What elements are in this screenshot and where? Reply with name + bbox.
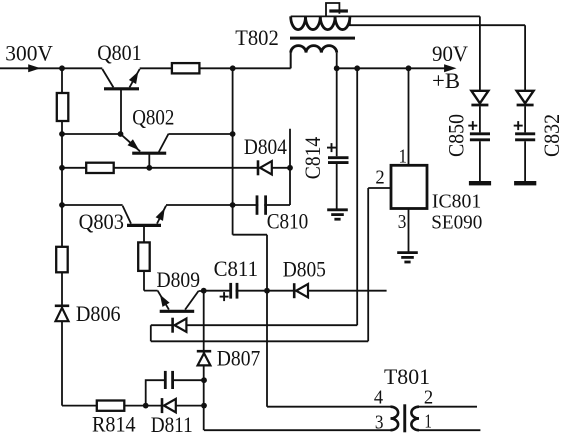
svg-text:+B: +B [432,68,460,93]
svg-text:C811: C811 [214,256,258,281]
svg-text:D809: D809 [157,267,201,292]
svg-text:R814: R814 [92,412,136,436]
svg-text:4: 4 [374,387,383,409]
svg-text:D807: D807 [217,346,260,371]
svg-text:Q801: Q801 [97,40,142,65]
svg-text:C832: C832 [539,114,564,157]
svg-text:T801: T801 [384,364,430,389]
svg-text:3: 3 [398,211,407,233]
svg-text:Q803: Q803 [79,209,124,234]
svg-text:2: 2 [424,387,433,409]
svg-text:C810: C810 [267,209,309,234]
svg-text:2: 2 [375,166,384,188]
svg-text:C850: C850 [444,114,469,157]
svg-text:D804: D804 [244,134,287,159]
svg-text:300V: 300V [5,40,53,65]
svg-text:D806: D806 [76,301,121,326]
svg-text:1: 1 [424,411,432,433]
svg-text:90V: 90V [432,41,468,66]
svg-text:3: 3 [375,412,384,434]
svg-text:C814: C814 [300,137,325,179]
svg-text:1: 1 [399,146,408,168]
svg-text:SE090: SE090 [431,212,482,234]
svg-text:Q802: Q802 [132,104,174,129]
svg-text:T802: T802 [235,25,278,50]
svg-text:D811: D811 [151,412,193,436]
svg-text:IC801: IC801 [432,191,481,213]
svg-text:D805: D805 [283,257,326,282]
